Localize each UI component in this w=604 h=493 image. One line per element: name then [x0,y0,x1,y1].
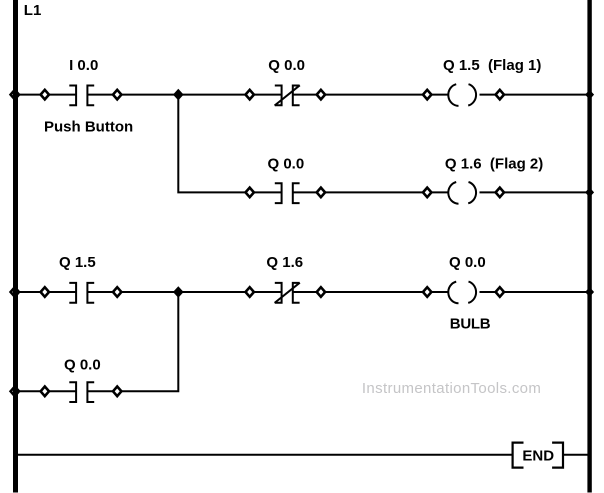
contact Q1.5 (NO) [69,283,94,303]
END instruction box [513,443,563,468]
node rung2 d1 [41,287,49,297]
node branch1 d5 [423,188,431,198]
node rung1 d1 [41,90,49,100]
node branch1 d3 [246,188,254,198]
junction branch1 right rail [585,188,594,198]
svg-text:Q 0.0: Q 0.0 [268,156,305,173]
svg-text:Q 1.6: Q 1.6 [266,254,303,271]
node rung2 left-rail [11,287,19,297]
right power rail [587,0,591,493]
junction rung1 branch [173,89,184,101]
contact Q0.0 seal-in (NO) [69,382,94,402]
junction rung2 branch [173,286,184,298]
node seal-in left-rail [11,387,19,397]
node rung1 left-rail [11,90,19,100]
wire seal-in seg A (left rail to contact Q0.0) [16,390,76,392]
wire seal-in seg B (contact to riser up to rung2) [87,293,178,391]
node rung2 d4 [317,287,325,297]
node rung2 d5 [423,287,431,297]
junction rung1 right rail [585,90,594,100]
junction rung2 right rail [585,287,594,297]
contact I0.0 (NO) [69,86,94,106]
wire rung2 seg C (contact Q1.6 to coil Q0.0) [293,291,448,293]
wire rung2 seg B (contact Q1.5 to contact Q1.6) [87,291,281,293]
node rung1 d3 [246,90,254,100]
node branch1 d6 [496,188,504,198]
wire rung1 seg C (contact Q0.0 to coil Q1.5) [293,94,448,96]
node rung2 d2 [113,287,121,297]
node branch1 d4 [317,188,325,198]
svg-text:Q 1.5: Q 1.5 [59,254,96,271]
coil Q1.6 [448,182,476,204]
wire end-rung right segment [563,454,588,456]
contact Q0.0 branch (NO) [275,183,300,203]
svg-text:Q 1.5 (Flag 1): Q 1.5 (Flag 1) [443,57,541,74]
contact Q1.6 (NC) [275,283,300,303]
node rung2 d3 [246,287,254,297]
node rung2 d6 [496,287,504,297]
wire rung1 seg D (coil Q1.5 to right rail) [480,94,589,96]
coil Q0.0 [448,282,476,304]
contact Q0.0 (NC) [275,85,300,105]
svg-text:BULB: BULB [450,315,491,332]
wire branch1 seg B (contact to coil Q1.6) [293,191,448,193]
wire rung1 seg A (left rail to contact I0.0) [16,94,76,96]
node rung1 d5 [423,90,431,100]
svg-text:Q 0.0: Q 0.0 [64,356,101,373]
node rung1 d4 [317,90,325,100]
svg-text:I 0.0: I 0.0 [69,57,98,74]
left power rail [13,0,18,493]
node seal-in d1 [41,387,49,397]
svg-text:Q 0.0: Q 0.0 [268,57,305,74]
coil Q1.5 [448,84,476,106]
svg-text:Q 0.0: Q 0.0 [449,254,486,271]
node seal-in d2 [113,387,121,397]
wire rung2 seg D (coil Q0.0 to right rail) [480,291,589,293]
wire rung2 seg A (left rail to contact Q1.5) [16,291,76,293]
node rung1 d6 [496,90,504,100]
svg-text:L1: L1 [24,2,42,19]
wire rung1 seg B (contact I0.0 to contact Q0.0) [87,94,281,96]
wire branch1 (down from junction, to contact Q0.0) [178,95,281,193]
wire branch1 seg C (coil Q1.6 to right rail) [480,191,589,193]
node rung1 d2 [113,90,121,100]
svg-text:InstrumentationTools.com: InstrumentationTools.com [362,380,541,397]
svg-text:END: END [522,447,554,464]
svg-text:Push Button: Push Button [44,119,133,136]
wire end-rung left segment [16,454,513,456]
svg-text:Q 1.6 (Flag 2): Q 1.6 (Flag 2) [445,156,543,173]
